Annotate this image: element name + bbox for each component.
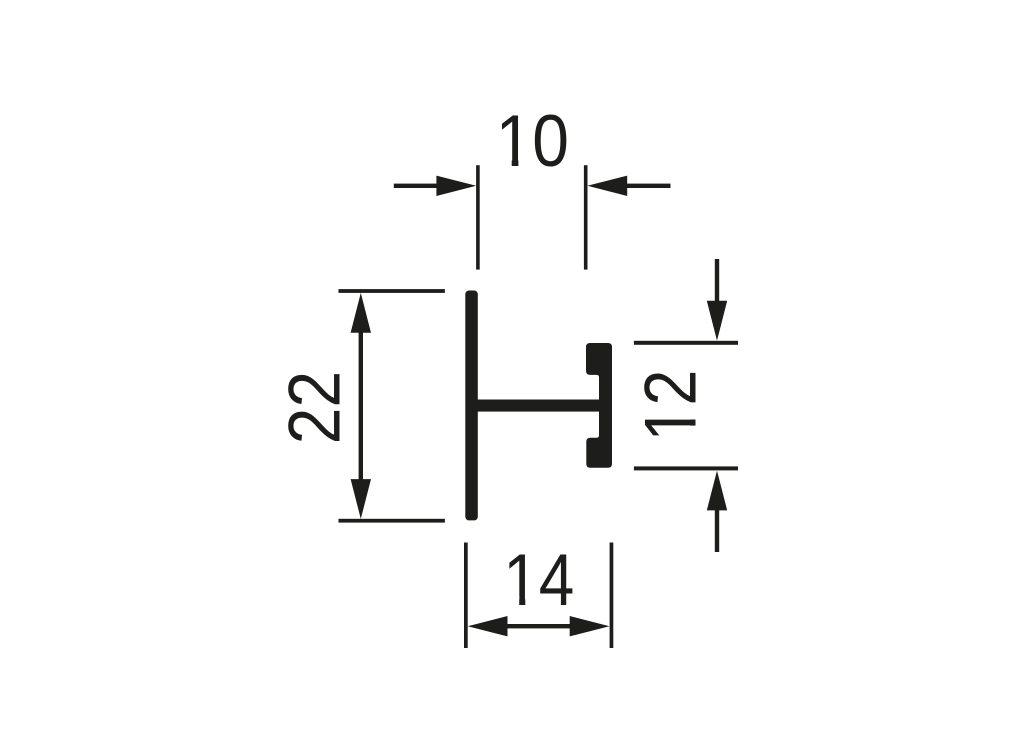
dimension 22 top extension line	[339, 289, 445, 293]
svg-text:10: 10	[496, 100, 569, 182]
svg-text:14: 14	[503, 539, 574, 621]
dimension 14 left extension line	[464, 543, 468, 649]
dimension 12 bottom arrow tail wire	[715, 506, 719, 552]
dimension 12 top extension line	[634, 341, 738, 345]
profile right flange (hooked plate, height 12)	[586, 343, 612, 468]
dimension 14 right extension line	[610, 543, 614, 649]
dimension 10 right arrowhead	[587, 176, 627, 196]
dimension 12 top arrow tail wire	[715, 259, 719, 305]
dimension 12 bottom arrowhead	[707, 471, 727, 511]
dimension 10 left extension line	[476, 165, 480, 269]
dimension 14 line	[500, 624, 577, 628]
svg-text:12: 12	[629, 370, 712, 442]
glyph correction: remove foot serif of digit 1 in "12"	[689, 406, 698, 420]
dimension 14 left arrowhead	[468, 616, 508, 636]
profile web (horizontal bar connecting flanges)	[470, 400, 606, 412]
dimension 12 top arrowhead	[707, 301, 727, 341]
dimension 10 left arrow tail wire	[394, 184, 442, 188]
profile left flange (vertical plate, height 22)	[465, 291, 478, 521]
glyph correction: remove foot serif of digit 1 in "10"	[498, 160, 512, 169]
dimension 10 right extension line	[584, 165, 588, 269]
dimension 10 left arrowhead	[436, 176, 476, 196]
dimension 14 right arrowhead	[570, 616, 610, 636]
svg-text:22: 22	[274, 371, 356, 445]
dimension 22 bottom arrowhead	[351, 479, 371, 519]
dimension 22 bottom extension line	[339, 519, 445, 523]
dimension 12 bottom extension line	[634, 466, 738, 470]
glyph correction: remove foot serif of digit 1 in "14"	[505, 596, 520, 607]
dimension 22 line	[359, 320, 363, 492]
dimension 22 top arrowhead	[351, 293, 371, 333]
dimension 10 right arrow tail wire	[623, 184, 671, 188]
